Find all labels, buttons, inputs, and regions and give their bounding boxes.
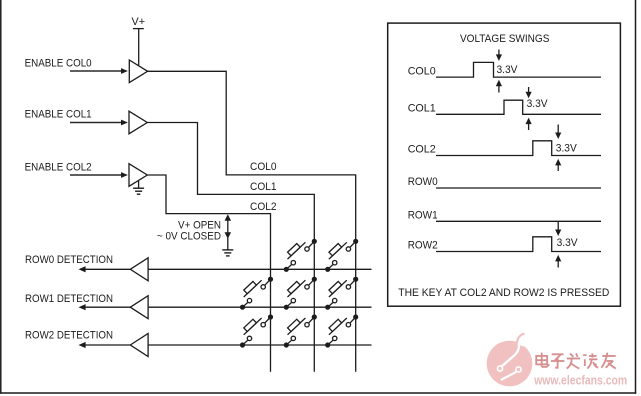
svg-text:ROW1 DETECTION: ROW1 DETECTION [25, 293, 113, 305]
svg-text:ENABLE COL1: ENABLE COL1 [25, 108, 92, 120]
svg-text:COL2: COL2 [250, 201, 277, 213]
svg-text:3.3V: 3.3V [556, 142, 578, 154]
svg-text:~ 0V CLOSED: ~ 0V CLOSED [157, 231, 221, 243]
svg-text:COL2: COL2 [408, 144, 436, 156]
svg-text:ROW2 DETECTION: ROW2 DETECTION [25, 330, 113, 342]
svg-text:www.elecfans.com: www.elecfans.com [533, 374, 627, 388]
svg-text:V+: V+ [132, 16, 146, 28]
svg-text:3.3V: 3.3V [557, 237, 579, 249]
svg-text:ROW2: ROW2 [408, 240, 438, 252]
svg-text:3.3V: 3.3V [497, 64, 519, 76]
svg-text:THE KEY AT COL2 AND ROW2 IS PR: THE KEY AT COL2 AND ROW2 IS PRESSED [398, 287, 609, 299]
svg-text:ENABLE COL0: ENABLE COL0 [25, 58, 92, 70]
svg-text:COL1: COL1 [250, 181, 277, 193]
svg-text:ROW0 DETECTION: ROW0 DETECTION [25, 254, 113, 266]
svg-text:VOLTAGE SWINGS: VOLTAGE SWINGS [460, 33, 550, 45]
svg-text:ROW0: ROW0 [408, 176, 438, 188]
svg-text:COL0: COL0 [250, 161, 277, 173]
svg-text:COL0: COL0 [408, 65, 436, 77]
svg-text:COL1: COL1 [408, 103, 436, 115]
svg-text:ENABLE COL2: ENABLE COL2 [25, 162, 92, 174]
svg-text:3.3V: 3.3V [527, 98, 549, 110]
svg-text:ROW1: ROW1 [408, 210, 438, 222]
